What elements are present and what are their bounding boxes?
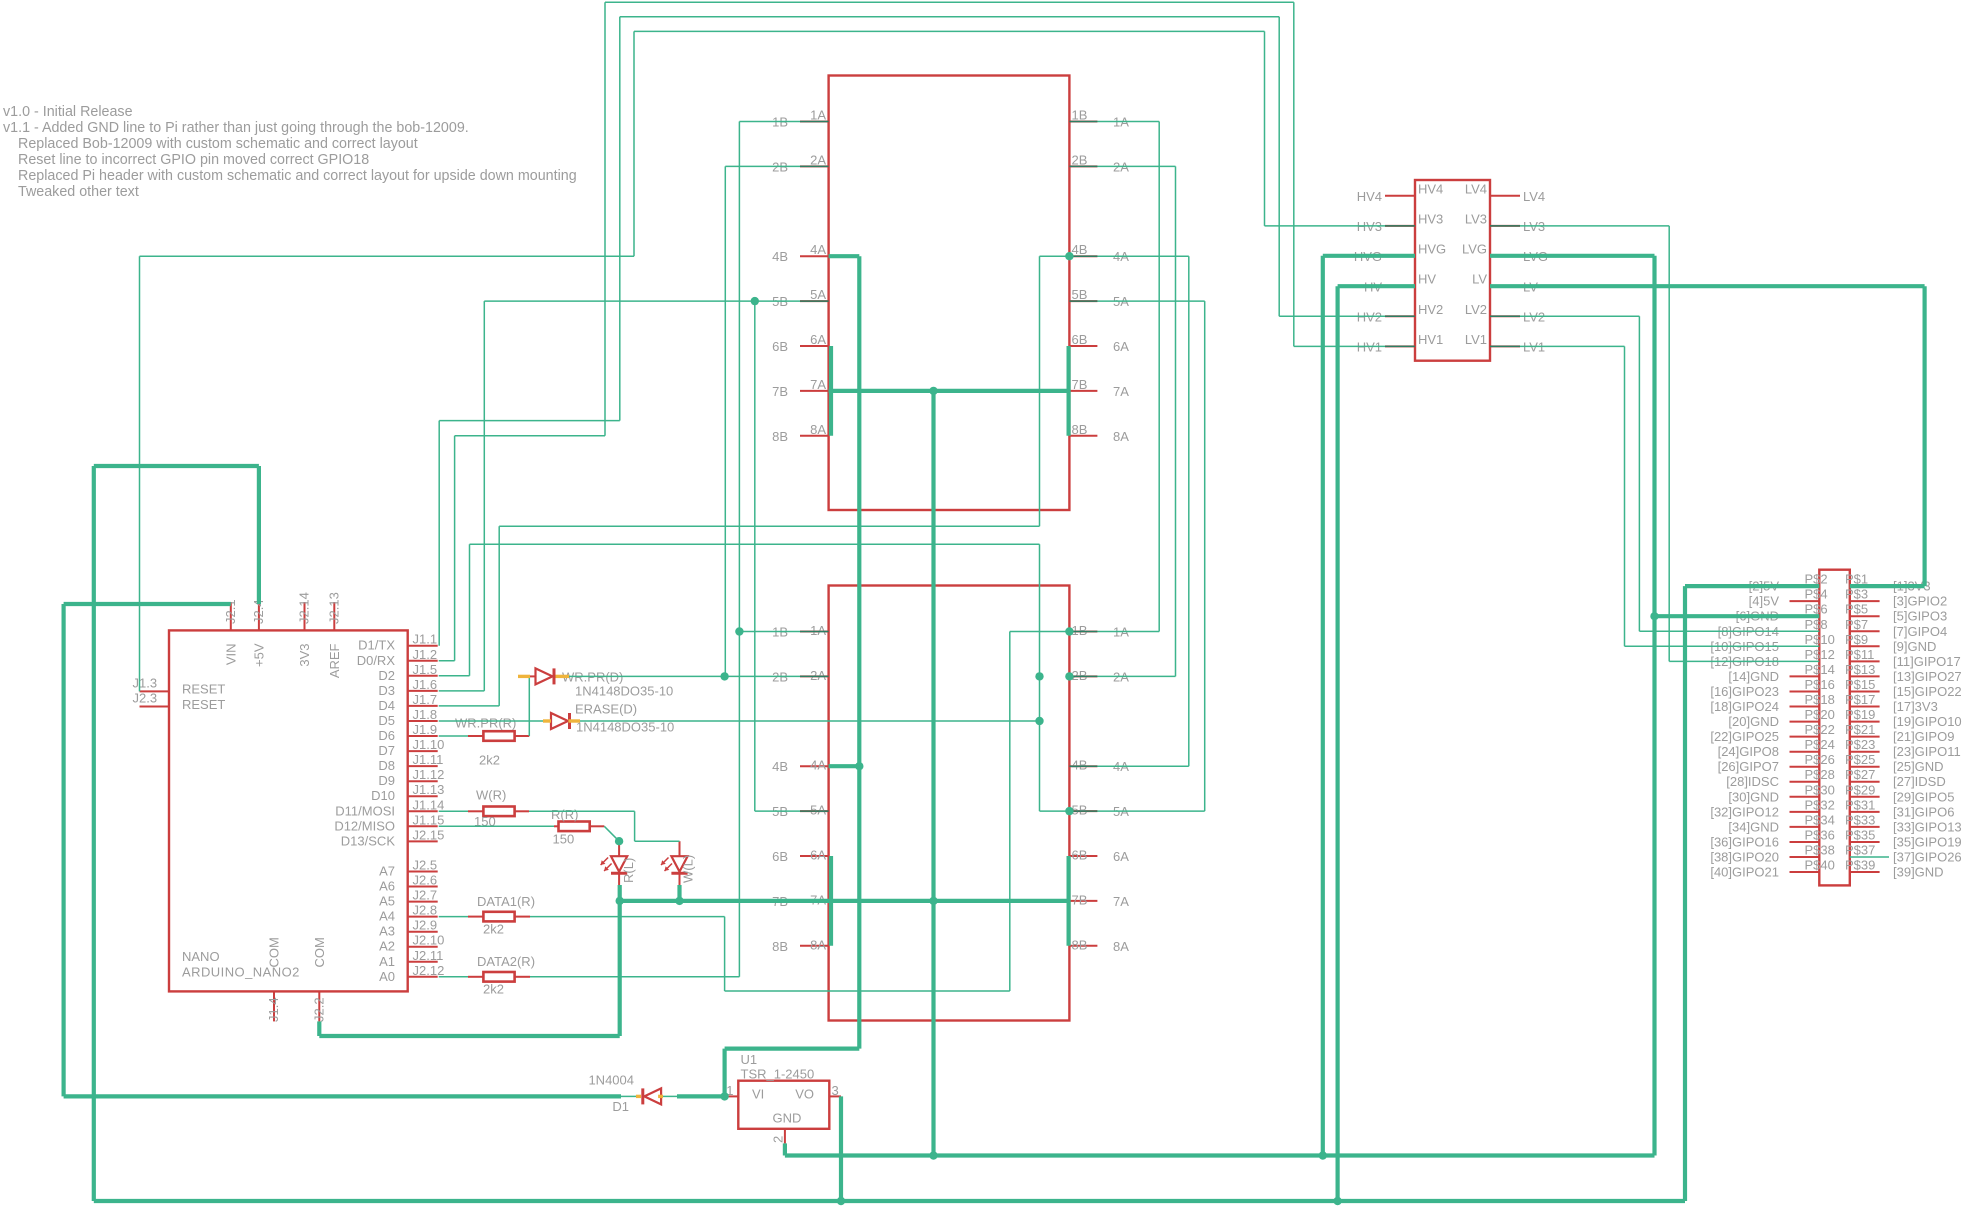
svg-text:HV: HV	[1418, 272, 1436, 287]
svg-text:[21]GIPO9: [21]GIPO9	[1893, 729, 1954, 744]
svg-text:[5]GIPO3: [5]GIPO3	[1893, 609, 1947, 624]
svg-text:HV3: HV3	[1418, 211, 1443, 226]
svg-text:D4: D4	[378, 698, 395, 713]
svg-text:RESET: RESET	[182, 682, 225, 697]
svg-text:COM: COM	[267, 937, 282, 967]
svg-text:7A: 7A	[1113, 384, 1129, 399]
svg-text:4B: 4B	[772, 249, 788, 264]
svg-text:WR.PR(R): WR.PR(R)	[455, 716, 516, 731]
svg-text:HV4: HV4	[1357, 189, 1382, 204]
svg-text:D1: D1	[612, 1099, 629, 1114]
svg-text:A1: A1	[379, 954, 395, 969]
svg-text:7A: 7A	[810, 377, 826, 392]
svg-text:P$12: P$12	[1805, 647, 1835, 662]
svg-text:D12/MISO: D12/MISO	[334, 818, 395, 833]
svg-text:J2.9: J2.9	[413, 918, 438, 933]
svg-text:HV3: HV3	[1357, 219, 1382, 234]
svg-text:8B: 8B	[772, 939, 788, 954]
svg-text:6A: 6A	[1113, 339, 1129, 354]
svg-text:J1.11: J1.11	[413, 752, 444, 767]
svg-text:Replaced Pi header with custom: Replaced Pi header with custom schematic…	[18, 168, 577, 184]
svg-text:8A: 8A	[1113, 939, 1129, 954]
svg-text:P$23: P$23	[1845, 737, 1875, 752]
svg-text:J1.9: J1.9	[413, 722, 438, 737]
svg-text:7B: 7B	[1072, 892, 1088, 907]
svg-text:P$8: P$8	[1805, 617, 1828, 632]
svg-text:[4]5V: [4]5V	[1749, 594, 1780, 609]
svg-text:[11]GIPO17: [11]GIPO17	[1893, 654, 1961, 669]
svg-text:HVG: HVG	[1418, 241, 1446, 256]
svg-text:D11/MOSI: D11/MOSI	[335, 803, 395, 818]
svg-text:6A: 6A	[1113, 849, 1129, 864]
svg-text:P$30: P$30	[1805, 782, 1835, 797]
svg-text:COM: COM	[312, 937, 327, 967]
svg-text:P$22: P$22	[1805, 722, 1835, 737]
svg-text:GND: GND	[773, 1111, 802, 1126]
svg-text:A5: A5	[379, 894, 395, 909]
svg-text:J1.13: J1.13	[413, 782, 445, 797]
svg-text:J1.1: J1.1	[413, 632, 438, 647]
svg-text:P$7: P$7	[1845, 617, 1868, 632]
svg-text:[30]GND: [30]GND	[1728, 789, 1779, 804]
svg-text:LV1: LV1	[1523, 340, 1545, 355]
svg-text:J1.12: J1.12	[413, 767, 445, 782]
svg-text:6B: 6B	[1072, 848, 1088, 863]
svg-text:D3: D3	[378, 683, 395, 698]
svg-text:J2.11: J2.11	[413, 948, 444, 963]
svg-text:5B: 5B	[1072, 287, 1088, 302]
svg-text:LV2: LV2	[1465, 302, 1487, 317]
svg-text:P$3: P$3	[1845, 587, 1868, 602]
svg-text:+5V: +5V	[251, 643, 266, 667]
svg-text:P$15: P$15	[1845, 677, 1875, 692]
svg-text:7B: 7B	[1072, 377, 1088, 392]
svg-text:5B: 5B	[1072, 803, 1088, 818]
svg-text:P$27: P$27	[1845, 767, 1875, 782]
svg-text:4B: 4B	[772, 759, 788, 774]
svg-text:P$11: P$11	[1845, 647, 1874, 662]
svg-text:DATA1(R): DATA1(R)	[477, 894, 535, 909]
svg-text:4A: 4A	[810, 758, 826, 773]
svg-text:1A: 1A	[810, 108, 826, 123]
svg-text:P$33: P$33	[1845, 812, 1875, 827]
svg-text:J2.2: J2.2	[311, 997, 326, 1022]
svg-text:W(L): W(L)	[681, 855, 696, 883]
svg-text:D6: D6	[378, 728, 395, 743]
svg-text:P$10: P$10	[1805, 632, 1835, 647]
svg-text:D9: D9	[378, 773, 395, 788]
svg-text:J2.5: J2.5	[413, 858, 438, 873]
svg-text:J1.10: J1.10	[413, 737, 445, 752]
svg-text:HV2: HV2	[1357, 310, 1382, 325]
svg-text:[16]GIPO23: [16]GIPO23	[1710, 684, 1779, 699]
svg-text:1N4004: 1N4004	[588, 1073, 634, 1088]
svg-text:VIN: VIN	[223, 644, 238, 666]
svg-text:J1.2: J1.2	[413, 647, 438, 662]
svg-text:J2.12: J2.12	[413, 963, 445, 978]
svg-text:P$19: P$19	[1845, 707, 1875, 722]
svg-text:LV1: LV1	[1465, 332, 1487, 347]
svg-text:P$32: P$32	[1805, 797, 1835, 812]
svg-text:7B: 7B	[772, 384, 788, 399]
svg-text:J1.6: J1.6	[413, 677, 438, 692]
svg-text:[32]GIPO12: [32]GIPO12	[1710, 804, 1779, 819]
svg-text:3V3: 3V3	[297, 644, 312, 667]
svg-text:2: 2	[771, 1136, 786, 1143]
svg-text:2B: 2B	[1072, 152, 1088, 167]
svg-text:LV3: LV3	[1465, 211, 1487, 226]
svg-text:P$17: P$17	[1845, 692, 1875, 707]
svg-text:[18]GIPO24: [18]GIPO24	[1710, 699, 1779, 714]
svg-text:[27]IDSD: [27]IDSD	[1893, 774, 1946, 789]
svg-text:2k2: 2k2	[479, 753, 500, 768]
svg-text:P$5: P$5	[1845, 602, 1868, 617]
svg-text:LV4: LV4	[1465, 181, 1487, 196]
svg-text:J2.3: J2.3	[133, 691, 158, 706]
svg-text:5A: 5A	[810, 287, 826, 302]
svg-text:HV1: HV1	[1357, 340, 1382, 355]
svg-text:J1.3: J1.3	[133, 675, 158, 690]
svg-text:4A: 4A	[810, 242, 826, 257]
svg-text:A7: A7	[379, 864, 395, 879]
svg-text:2A: 2A	[810, 152, 826, 167]
svg-text:RESET: RESET	[182, 697, 225, 712]
svg-text:NANO: NANO	[182, 949, 220, 964]
svg-text:TSR_1-2450: TSR_1-2450	[741, 1067, 815, 1082]
svg-text:J1.15: J1.15	[413, 812, 445, 827]
svg-text:P$9: P$9	[1845, 632, 1868, 647]
svg-text:[37]GIPO26: [37]GIPO26	[1893, 850, 1962, 865]
svg-text:VI: VI	[752, 1087, 764, 1102]
svg-text:P$39: P$39	[1845, 858, 1875, 873]
svg-text:1B: 1B	[1072, 108, 1088, 123]
svg-text:J1.7: J1.7	[413, 692, 438, 707]
svg-text:J1.8: J1.8	[413, 707, 438, 722]
svg-text:[26]GIPO7: [26]GIPO7	[1718, 759, 1779, 774]
svg-text:J1.4: J1.4	[266, 997, 281, 1022]
svg-text:4B: 4B	[1072, 242, 1088, 257]
svg-text:[14]GND: [14]GND	[1728, 669, 1779, 684]
svg-text:J2.8: J2.8	[413, 903, 438, 918]
svg-text:ERASE(D): ERASE(D)	[575, 702, 637, 717]
svg-text:U1: U1	[741, 1052, 758, 1067]
svg-text:HV4: HV4	[1418, 181, 1443, 196]
svg-text:8B: 8B	[772, 429, 788, 444]
svg-text:P$34: P$34	[1805, 812, 1835, 827]
svg-text:[24]GIPO8: [24]GIPO8	[1718, 744, 1779, 759]
svg-text:P$40: P$40	[1805, 858, 1835, 873]
svg-text:150: 150	[553, 832, 575, 847]
svg-text:[25]GND: [25]GND	[1893, 759, 1944, 774]
svg-text:LVG: LVG	[1462, 241, 1487, 256]
svg-text:P$26: P$26	[1805, 752, 1835, 767]
svg-text:LV3: LV3	[1523, 219, 1545, 234]
svg-text:D0/RX: D0/RX	[357, 653, 396, 668]
svg-text:8A: 8A	[810, 422, 826, 437]
svg-text:[31]GIPO6: [31]GIPO6	[1893, 804, 1954, 819]
svg-text:[13]GIPO27: [13]GIPO27	[1893, 669, 1962, 684]
svg-text:D13/SCK: D13/SCK	[341, 833, 396, 848]
svg-text:A2: A2	[379, 939, 395, 954]
svg-text:6B: 6B	[772, 339, 788, 354]
svg-text:1N4148DO35-10: 1N4148DO35-10	[575, 684, 673, 699]
svg-text:2B: 2B	[1072, 668, 1088, 683]
svg-text:D5: D5	[378, 713, 395, 728]
svg-text:[22]GIPO25: [22]GIPO25	[1710, 729, 1779, 744]
svg-text:DATA2(R): DATA2(R)	[477, 954, 535, 969]
svg-text:LV: LV	[1472, 272, 1487, 287]
svg-text:R(L): R(L)	[621, 858, 636, 883]
svg-text:6A: 6A	[810, 332, 826, 347]
svg-text:P$35: P$35	[1845, 828, 1875, 843]
svg-text:A4: A4	[379, 909, 395, 924]
svg-text:Replaced Bob-12009 with custom: Replaced Bob-12009 with custom schematic…	[18, 136, 418, 152]
svg-text:A0: A0	[379, 969, 395, 984]
svg-text:P$25: P$25	[1845, 752, 1875, 767]
svg-text:P$14: P$14	[1805, 662, 1835, 677]
svg-text:J2.13: J2.13	[326, 592, 341, 624]
svg-text:[36]GIPO16: [36]GIPO16	[1710, 835, 1779, 850]
svg-text:3: 3	[832, 1083, 839, 1098]
svg-text:P$31: P$31	[1845, 797, 1875, 812]
svg-text:6A: 6A	[810, 848, 826, 863]
svg-text:[20]GND: [20]GND	[1728, 714, 1779, 729]
svg-text:D10: D10	[371, 788, 395, 803]
svg-text:2k2: 2k2	[483, 922, 504, 937]
svg-text:ARDUINO_NANO2: ARDUINO_NANO2	[182, 965, 300, 980]
svg-text:[33]GIPO13: [33]GIPO13	[1893, 819, 1962, 834]
svg-text:P$37: P$37	[1845, 843, 1875, 858]
svg-text:VO: VO	[795, 1087, 814, 1102]
svg-text:4B: 4B	[1072, 758, 1088, 773]
svg-text:[29]GIPO5: [29]GIPO5	[1893, 789, 1954, 804]
svg-text:D8: D8	[378, 758, 395, 773]
svg-text:D7: D7	[378, 743, 395, 758]
svg-text:D1/TX: D1/TX	[358, 638, 395, 653]
svg-text:P$18: P$18	[1805, 692, 1835, 707]
svg-text:[23]GIPO11: [23]GIPO11	[1893, 744, 1961, 759]
svg-text:P$38: P$38	[1805, 843, 1835, 858]
svg-text:J1.5: J1.5	[413, 662, 438, 677]
svg-text:P$21: P$21	[1845, 722, 1875, 737]
svg-text:Reset line to incorrect GPIO p: Reset line to incorrect GPIO pin moved c…	[18, 152, 369, 168]
svg-text:P$16: P$16	[1805, 677, 1835, 692]
svg-text:D2: D2	[378, 668, 395, 683]
svg-text:P$28: P$28	[1805, 767, 1835, 782]
svg-text:[40]GIPO21: [40]GIPO21	[1710, 865, 1779, 880]
svg-text:[28]IDSC: [28]IDSC	[1726, 774, 1779, 789]
svg-text:v1.0 - Initial Release: v1.0 - Initial Release	[3, 104, 133, 120]
svg-text:A3: A3	[379, 924, 395, 939]
svg-text:J2.6: J2.6	[413, 873, 438, 888]
svg-text:J2.15: J2.15	[413, 827, 445, 842]
svg-text:[35]GIPO19: [35]GIPO19	[1893, 835, 1962, 850]
svg-text:[19]GIPO10: [19]GIPO10	[1893, 714, 1962, 729]
svg-text:HV1: HV1	[1418, 332, 1443, 347]
svg-text:P$13: P$13	[1845, 662, 1875, 677]
svg-text:8A: 8A	[1113, 429, 1129, 444]
svg-text:J2.14: J2.14	[297, 592, 312, 624]
svg-text:AREF: AREF	[327, 643, 342, 678]
svg-text:J2.7: J2.7	[413, 888, 438, 903]
svg-text:P$4: P$4	[1805, 587, 1828, 602]
svg-text:[15]GIPO22: [15]GIPO22	[1893, 684, 1962, 699]
svg-text:J2.10: J2.10	[413, 933, 445, 948]
svg-text:8B: 8B	[1072, 422, 1088, 437]
svg-text:P$24: P$24	[1805, 737, 1835, 752]
svg-text:LV2: LV2	[1523, 310, 1545, 325]
svg-text:LV4: LV4	[1523, 189, 1545, 204]
svg-text:Tweaked other text: Tweaked other text	[18, 184, 139, 200]
svg-text:5A: 5A	[810, 803, 826, 818]
svg-text:J1.14: J1.14	[413, 797, 445, 812]
svg-text:[3]GPIO2: [3]GPIO2	[1893, 594, 1947, 609]
svg-text:R(R): R(R)	[551, 807, 578, 822]
svg-text:6B: 6B	[772, 849, 788, 864]
svg-text:1B: 1B	[1072, 623, 1088, 638]
svg-text:1A: 1A	[810, 623, 826, 638]
svg-text:v1.1 - Added GND line to Pi ra: v1.1 - Added GND line to Pi rather than …	[3, 120, 469, 136]
svg-text:2k2: 2k2	[483, 982, 504, 997]
svg-text:[7]GIPO4: [7]GIPO4	[1893, 624, 1947, 639]
svg-text:P$36: P$36	[1805, 828, 1835, 843]
svg-text:[39]GND: [39]GND	[1893, 865, 1944, 880]
svg-text:P$29: P$29	[1845, 782, 1875, 797]
svg-text:[38]GIPO20: [38]GIPO20	[1710, 850, 1779, 865]
svg-text:P$20: P$20	[1805, 707, 1835, 722]
svg-text:2A: 2A	[810, 668, 826, 683]
svg-text:[9]GND: [9]GND	[1893, 639, 1936, 654]
svg-text:[17]3V3: [17]3V3	[1893, 699, 1938, 714]
svg-text:6B: 6B	[1072, 332, 1088, 347]
svg-text:8A: 8A	[810, 937, 826, 952]
svg-text:HV2: HV2	[1418, 302, 1443, 317]
svg-text:W(R): W(R)	[476, 788, 506, 803]
svg-text:8B: 8B	[1072, 937, 1088, 952]
svg-text:7A: 7A	[1113, 894, 1129, 909]
svg-text:[34]GND: [34]GND	[1728, 819, 1779, 834]
svg-text:A6: A6	[379, 879, 395, 894]
